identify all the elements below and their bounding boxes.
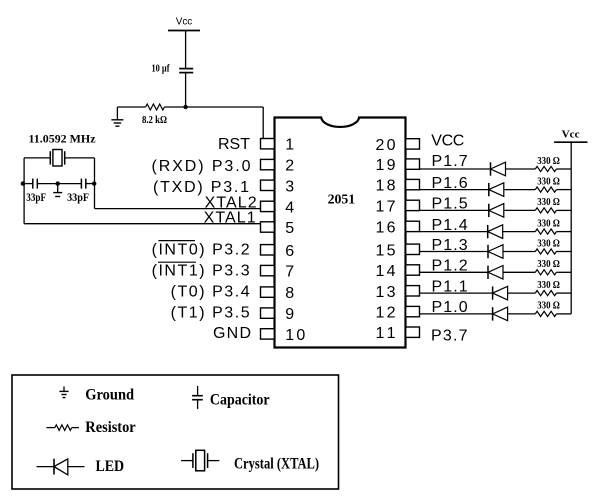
svg-text:33pF: 33pF xyxy=(26,190,46,204)
svg-text:Ground: Ground xyxy=(85,386,134,403)
svg-text:330 Ω: 330 Ω xyxy=(537,197,560,208)
svg-text:3: 3 xyxy=(285,178,294,195)
svg-text:7: 7 xyxy=(285,264,294,281)
svg-text:6: 6 xyxy=(285,243,294,260)
svg-text:Resistor: Resistor xyxy=(85,419,135,436)
svg-text:2051: 2051 xyxy=(328,193,356,208)
svg-text:P3.7: P3.7 xyxy=(431,328,468,345)
svg-text:5: 5 xyxy=(285,220,294,237)
svg-text:330 Ω: 330 Ω xyxy=(537,218,560,229)
svg-text:8: 8 xyxy=(285,285,294,302)
svg-text:Vcc: Vcc xyxy=(562,130,581,141)
svg-text:1: 1 xyxy=(285,137,294,154)
svg-text:330 Ω: 330 Ω xyxy=(537,280,560,291)
svg-text:LED: LED xyxy=(96,458,125,475)
svg-text:(TXD) P3.1: (TXD) P3.1 xyxy=(153,179,249,196)
svg-text:10 µf: 10 µf xyxy=(152,63,170,75)
svg-text:Capacitor: Capacitor xyxy=(210,391,270,408)
svg-text:11.0592 MHz: 11.0592 MHz xyxy=(29,132,97,146)
svg-text:P1.7: P1.7 xyxy=(432,153,468,170)
svg-text:330 Ω: 330 Ω xyxy=(537,238,560,249)
svg-text:4: 4 xyxy=(285,199,294,216)
svg-text:(RXD) P3.0: (RXD) P3.0 xyxy=(152,158,251,175)
svg-text:(INT1) P3.3: (INT1) P3.3 xyxy=(152,263,250,280)
svg-text:(INT0) P3.2: (INT0) P3.2 xyxy=(152,242,250,259)
svg-text:330 Ω: 330 Ω xyxy=(537,259,560,270)
svg-text:330 Ω: 330 Ω xyxy=(537,176,560,187)
svg-text:VCC: VCC xyxy=(431,133,464,150)
svg-text:33pF: 33pF xyxy=(67,190,89,204)
svg-text:Crystal (XTAL): Crystal (XTAL) xyxy=(234,456,319,473)
svg-text:330 Ω: 330 Ω xyxy=(537,156,560,167)
svg-text:GND: GND xyxy=(213,325,251,342)
svg-text:2: 2 xyxy=(285,158,294,175)
svg-text:8.2 kΩ: 8.2 kΩ xyxy=(142,114,167,126)
svg-text:330 Ω: 330 Ω xyxy=(537,301,560,312)
svg-text:9: 9 xyxy=(285,306,294,323)
svg-text:(T1) P3.5: (T1) P3.5 xyxy=(171,304,250,321)
svg-text:RST: RST xyxy=(218,136,250,153)
svg-text:Vcc: Vcc xyxy=(176,16,193,27)
svg-text:XTAL1: XTAL1 xyxy=(204,210,256,227)
svg-text:(T0) P3.4: (T0) P3.4 xyxy=(171,284,250,301)
